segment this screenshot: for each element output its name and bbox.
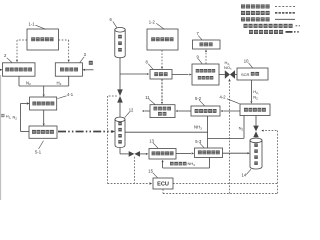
svg-text:NOx: NOx [224, 65, 232, 71]
power dashed 9 to 7 [205, 49, 207, 64]
svg-text:5-1: 5-1 [35, 149, 42, 154]
wire valve V4 to tank 14 [255, 137, 257, 138]
svg-text:15: 15 [148, 168, 153, 173]
cylinder 12 氨储存罐 [115, 117, 125, 148]
wire NH3 horizontal to tank 12 [125, 131, 208, 133]
wire 5-2 to 11 [175, 110, 191, 112]
valve V2 [129, 151, 140, 157]
svg-text:14: 14 [242, 172, 247, 177]
label 5-3 [195, 139, 204, 148]
label 8 [146, 60, 154, 70]
control dashed riser to valve V3 [228, 79, 230, 194]
wire: water input arrow into box 3 [82, 69, 93, 71]
wire 4-2 down to valve V4 [255, 116, 257, 126]
label 14 [242, 169, 252, 177]
control dashed ECU right [173, 183, 278, 185]
label 13 [149, 138, 158, 148]
label NH3 [194, 125, 202, 131]
svg-text:5-2: 5-2 [195, 96, 202, 101]
box 11 蒸气换热装置 [150, 105, 175, 118]
control dashed valve V4 to riser [261, 130, 277, 184]
wire valve V2 to 13 [140, 153, 148, 155]
label 未分解的NH3 [170, 161, 195, 167]
svg-text:1-2: 1-2 [149, 20, 156, 25]
box 1-1 分布式能源 [27, 29, 59, 50]
control dashed valve V2 to ECU line [133, 157, 135, 184]
wire 5-3 to tank 14 [223, 152, 251, 154]
svg-text:10: 10 [244, 59, 249, 64]
legend row 5: 远距离输送线路 thick dash-dot sample [249, 30, 299, 34]
label 7 [197, 31, 203, 40]
wire merge to 4-1 [19, 86, 69, 97]
wire 11 output left arrow [142, 110, 150, 112]
box 8 换热器 [150, 70, 172, 80]
wire unreacted NH3 loop 5-3 to 13 [162, 158, 210, 169]
svg-text:SCR: SCR [241, 72, 250, 77]
label 3 [80, 52, 87, 62]
box 4-1 氨合成装置 [30, 97, 57, 110]
label N2 [253, 95, 258, 101]
label 4-2 [220, 94, 240, 103]
wire N2 from box 2 down [18, 76, 20, 86]
valve V3 [225, 70, 235, 78]
legend row 1: 电能传输线路 dashed sample [241, 4, 295, 8]
label 15 [148, 168, 157, 177]
box 5-1 氨分离装置 [29, 126, 57, 138]
wire tank 12 to valve V2 [120, 148, 129, 154]
label 1-1 [29, 22, 47, 30]
wire: power dashed 1-1 to box3 [59, 40, 70, 62]
box 15 ECU [153, 178, 173, 189]
wire: power dashed 1-1 to box2 [16, 40, 27, 62]
svg-text:4-2: 4-2 [220, 94, 227, 99]
box 2 变压调制装置 [3, 63, 36, 76]
heat dashed 8 to 11 [161, 79, 163, 104]
valve V4 [253, 126, 259, 138]
wire 13 to 5-3 [176, 152, 194, 154]
label 6 [110, 17, 117, 28]
label 9 [197, 54, 203, 63]
label H2 NOx [224, 60, 232, 70]
wire N2 return to 4-2 [208, 116, 245, 139]
wire long-distance line 5-1 to tank 12 [58, 130, 115, 133]
box 5-3 氨分离装置 [195, 148, 223, 158]
wire 4-1 to 5-1 [43, 110, 45, 126]
cylinder 14 氢储存罐 [250, 138, 262, 169]
legend row 2: 热能传输线路 bold dashed sample [241, 11, 295, 15]
svg-text:1-1: 1-1 [29, 22, 36, 27]
valve V1 [117, 89, 123, 102]
wire SCR down to 4-2 H2 N2 [250, 80, 252, 104]
wire valve V1 to tank 12 [119, 103, 121, 117]
label H2,N2 [1, 114, 17, 121]
label 1-2 [149, 20, 165, 30]
label N2 [26, 80, 31, 86]
wire valve V3 to SCR [235, 74, 237, 76]
legend row 4: 电控装置信息传递线路 dashed sample [244, 24, 301, 28]
label 2 [4, 53, 12, 62]
wire 4-2 to 5-2 [220, 110, 240, 112]
wire NH3 5-2 down [207, 116, 209, 148]
label 10 [244, 59, 253, 68]
label 5-2 [195, 96, 205, 106]
legend row 3: 物流传输线路 solid sample [241, 17, 295, 21]
wire power dashed 1-2 to 8 [161, 50, 163, 69]
label N2 [239, 126, 244, 132]
wire 9 to valve V3 [219, 74, 225, 76]
label H2 [253, 89, 259, 95]
cylinder 6 空气罐 [115, 28, 125, 58]
label 11 [145, 95, 155, 105]
control dashed ECU bottom [163, 185, 278, 194]
svg-text:4-1: 4-1 [67, 92, 74, 97]
svg-text:12: 12 [129, 108, 134, 113]
svg-text:13: 13 [149, 138, 154, 143]
svg-text:ECU: ECU [157, 182, 169, 188]
label 水 [89, 61, 93, 65]
wire 8 to 9 [172, 73, 192, 75]
box 10 SCR装置 [237, 68, 268, 80]
box 13 氨分解装置 [149, 149, 176, 160]
box 4-2 氨合成装置 [240, 104, 270, 116]
box 9 固体氧化物燃料电池 [192, 64, 219, 85]
faint scan edge left [0, 75, 2, 200]
wire air tank down [119, 58, 121, 90]
label 4-1 [58, 92, 74, 98]
wire: input arrow into box 2 [0, 69, 2, 71]
svg-text:5-3: 5-3 [195, 139, 202, 144]
box 7 用户端 [193, 40, 221, 49]
box 5-2 氨分离装置 [191, 106, 220, 116]
wire recycle loop 5-1 to 4-1 H2 N2 [21, 102, 30, 131]
box 3 电解装置 [55, 63, 82, 76]
wire H2 from box 3 down [68, 76, 70, 86]
label H2 [57, 80, 62, 86]
control dashed into ECU left [108, 182, 153, 184]
control dashed valve V1 to ECU riser [108, 96, 117, 184]
label 12 [125, 108, 134, 118]
box 1-2 分布式能源 [147, 29, 178, 50]
svg-text:11: 11 [145, 95, 150, 100]
label 5-1 [35, 141, 44, 155]
wire branch to heat exchanger 8 [120, 73, 149, 75]
